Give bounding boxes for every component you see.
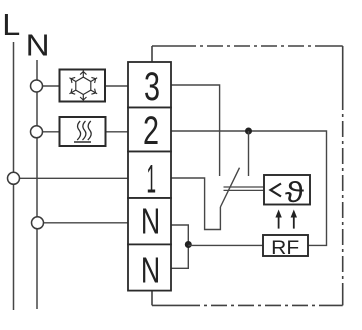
terminal 3 label: [144, 65, 160, 109]
svg-text:ϑ: ϑ: [285, 177, 304, 209]
wire: terminal 1 to switch common: [171, 178, 220, 230]
svg-text:N: N: [141, 250, 160, 291]
wire: terminal 2 to junction and RF module: [171, 131, 327, 245]
svg-text:2: 2: [143, 109, 159, 153]
terminal N (second) label: [141, 250, 160, 291]
L supply line: [13, 42, 15, 310]
svg-text:L: L: [2, 7, 20, 42]
snowflake icon: [68, 70, 99, 102]
wire: N junction to RF module: [188, 244, 263, 246]
terminal circle on N line (to heating): [31, 126, 43, 138]
thermostat symbol: less-than: [271, 184, 282, 197]
terminal block: [128, 62, 171, 291]
actuation arrow right: [291, 210, 297, 229]
wire: cooling box to terminal 3: [105, 85, 128, 87]
wire: N tap to heating box: [37, 131, 60, 133]
wire: N tap to cooling box: [37, 85, 60, 87]
actuation arrow left: [275, 210, 281, 229]
wire: heating box to terminal 2: [106, 131, 129, 133]
RF label: [271, 237, 299, 259]
cooling load box: [60, 70, 106, 102]
wire: terminals N bridge bracket: [171, 225, 188, 268]
svg-text:N: N: [141, 201, 160, 242]
wire: junction to switch right contact: [248, 131, 250, 176]
wire: N tap to terminal N: [38, 222, 129, 224]
enclosure dash-dot border (thermostat receiver outline): [152, 46, 343, 305]
wire: L tap to terminal 1: [14, 177, 129, 179]
thermostat box: [264, 175, 310, 205]
terminal circle on N line (to terminal N): [32, 217, 44, 229]
switch lever (relay changeover contact): [220, 168, 239, 207]
junction dot on wire 2: [245, 128, 252, 135]
svg-text:RF: RF: [271, 237, 299, 259]
N supply line: [36, 60, 38, 309]
RF module box: [263, 235, 308, 256]
svg-text:N: N: [26, 29, 50, 63]
thermostat symbol: theta: [285, 177, 304, 209]
terminal circle on N line (to cooling): [31, 80, 43, 92]
svg-text:1: 1: [146, 158, 156, 202]
svg-text:3: 3: [144, 65, 160, 109]
heating load box: [60, 117, 106, 146]
terminal N (first) label: [141, 201, 160, 242]
terminal 2 label: [143, 109, 159, 153]
mechanical link to thermostat (double line): [224, 187, 265, 190]
label L: [2, 7, 20, 42]
wire: terminal 3 to switch contact: [171, 85, 220, 176]
terminal 1 label: [146, 158, 156, 202]
terminal circle on L line: [8, 172, 20, 184]
heating icon (3 waves over bar): [74, 121, 91, 142]
junction dot on N bracket: [185, 241, 192, 248]
label N: [26, 29, 50, 63]
